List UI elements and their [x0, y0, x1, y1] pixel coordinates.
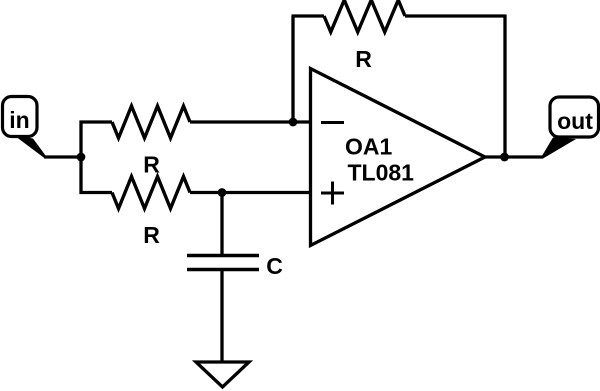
wire op-amp output to out label: [485, 155, 543, 158]
wire feedback top left segment: [292, 14, 325, 17]
svg-text:TL081: TL081: [348, 160, 415, 186]
svg-text:OA1: OA1: [345, 134, 393, 160]
wire node A up to R1 row: [81, 122, 112, 157]
net label "out": [541, 97, 599, 159]
node A junction: [77, 153, 86, 162]
wire from in label to node A: [44, 155, 81, 158]
svg-text:C: C: [266, 253, 283, 279]
wire capacitor to ground: [220, 270, 223, 363]
wire R1 to inverting node: [190, 120, 310, 123]
capacitor C: [187, 256, 259, 270]
op-amp inverting input minus sign: [321, 121, 344, 124]
svg-text:in: in: [9, 107, 29, 133]
wire R2 to node B and op-amp + input: [190, 191, 310, 194]
op-amp OA1 triangle body: [311, 69, 486, 246]
net label "in": [3, 97, 48, 159]
svg-text:R: R: [355, 46, 372, 72]
resistor R2 (bottom, to non-inverting input): [112, 177, 190, 209]
junction at inverting input node: [289, 118, 298, 127]
ground symbol: [196, 362, 249, 387]
wire node B down to capacitor: [220, 193, 223, 256]
resistor R1 (top, to inverting input): [112, 106, 190, 138]
wire feedback right vertical down to output: [503, 15, 506, 158]
wire node A down to R2 row: [81, 157, 112, 193]
output node junction: [500, 153, 509, 162]
resistor R3 (feedback): [324, 0, 405, 32]
wire feedback left vertical: [291, 16, 294, 122]
wire feedback top right segment: [405, 14, 505, 17]
svg-text:out: out: [557, 108, 593, 134]
svg-text:R: R: [143, 222, 160, 248]
op-amp non-inverting input plus sign: [321, 182, 344, 205]
node B junction (capacitor tap): [218, 188, 227, 197]
